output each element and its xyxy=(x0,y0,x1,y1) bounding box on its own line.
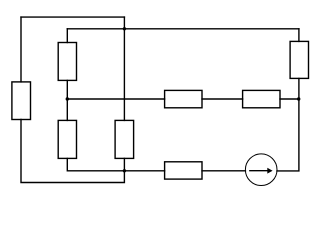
wire xyxy=(21,16,124,18)
wire xyxy=(67,28,299,30)
resistor R4 xyxy=(115,120,134,158)
resistor R2 xyxy=(58,43,76,81)
wire xyxy=(123,17,125,29)
wire xyxy=(298,29,300,42)
wire xyxy=(66,80,68,120)
wire xyxy=(67,158,164,170)
wire xyxy=(202,98,243,100)
resistor R5 xyxy=(290,41,308,78)
node C xyxy=(297,97,300,100)
node B xyxy=(66,97,69,100)
node A xyxy=(123,27,126,30)
wire xyxy=(280,98,299,100)
wire xyxy=(123,158,125,170)
node D xyxy=(123,169,126,172)
resistor R6 xyxy=(165,90,202,107)
wire xyxy=(277,78,299,170)
wire xyxy=(66,29,68,43)
resistor R7 xyxy=(243,90,280,107)
resistor R8 xyxy=(165,162,202,179)
resistor R3 xyxy=(58,120,76,158)
wire xyxy=(21,120,124,183)
wire xyxy=(123,29,125,121)
wire xyxy=(202,170,245,172)
wire xyxy=(20,17,22,82)
wire xyxy=(67,98,164,100)
current source I1 xyxy=(245,154,277,186)
resistor R1 xyxy=(12,82,31,120)
